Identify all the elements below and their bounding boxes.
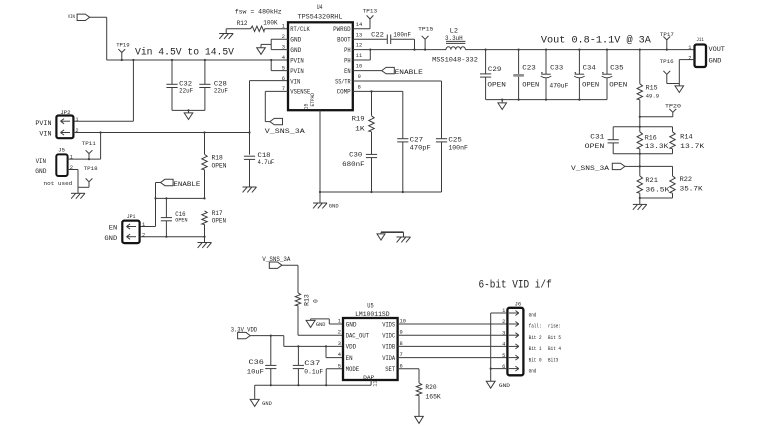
svg-text:OPEN: OPEN: [487, 82, 506, 89]
svg-text:6: 6: [282, 76, 285, 82]
resistor R17 OPEN: [202, 211, 207, 225]
svg-text:R22: R22: [680, 176, 693, 183]
capacitor C23 OPEN: [518, 49, 520, 51]
ground (triangle) output caps: [501, 100, 503, 103]
svg-text:1: 1: [282, 24, 285, 30]
wire divider mid node: [639, 154, 641, 176]
svg-text:100K: 100K: [263, 20, 277, 27]
ground (hatch) C18: [243, 186, 257, 188]
capacitor C25 100nF: [436, 138, 447, 140]
svg-text:TP18: TP18: [84, 165, 99, 172]
svg-text:10uF: 10uF: [247, 368, 264, 375]
resistor R12 100K: [226, 28, 250, 30]
wire U5 ground rail: [255, 384, 371, 386]
svg-text:6-bit VID i/f: 6-bit VID i/f: [479, 280, 552, 292]
wire ENABLE net horizontal: [156, 197, 205, 199]
svg-text:TP19: TP19: [116, 41, 130, 48]
net flag ENABLE (jumper side): [161, 179, 174, 185]
ground (triangle) U5 GND pin: [329, 323, 343, 325]
wire divider ground join: [640, 197, 673, 199]
svg-text:4: 4: [502, 342, 505, 348]
svg-text:2: 2: [338, 330, 341, 336]
svg-text:MODE: MODE: [346, 366, 360, 373]
ground (hatch) J5: [77, 187, 79, 193]
resistor R19 1K: [371, 91, 373, 115]
inductor L2 3.3uH: [446, 47, 465, 50]
svg-text:4: 4: [338, 352, 341, 358]
ground (triangle) J11: [678, 84, 680, 86]
svg-text:JP1: JP1: [127, 213, 136, 220]
svg-text:OPEN: OPEN: [212, 163, 227, 170]
connector JP2: [56, 116, 73, 139]
wire J6 ground pins 1,6: [491, 312, 508, 314]
svg-text:C37: C37: [304, 360, 320, 367]
wire U4 PH pin 11 jog: [353, 59, 371, 61]
svg-text:OPEN: OPEN: [212, 217, 227, 224]
svg-text:fsw = 480kHz: fsw = 480kHz: [235, 8, 282, 15]
capacitor C37 0.1uF: [297, 346, 299, 365]
svg-text:Bit 1: Bit 1: [529, 345, 542, 352]
svg-text:C34: C34: [583, 65, 596, 72]
ground (hatch) divider: [639, 198, 641, 204]
resistor R21 36.5K: [637, 176, 642, 193]
svg-text:GND: GND: [262, 401, 272, 407]
resistor R14 13.7K: [672, 127, 674, 132]
svg-text:VIN: VIN: [290, 78, 300, 85]
svg-text:EN: EN: [346, 355, 353, 362]
resistor R16 13.3K: [639, 127, 641, 132]
svg-text:PWRGD: PWRGD: [333, 26, 351, 33]
svg-text:VOUT: VOUT: [709, 46, 726, 53]
svg-text:Gnd: Gnd: [529, 367, 537, 374]
svg-text:PVIN: PVIN: [35, 120, 51, 127]
svg-text:U5: U5: [367, 303, 374, 310]
svg-text:VIDS: VIDS: [382, 321, 395, 328]
svg-text:U4: U4: [317, 4, 323, 11]
capacitor C33 470uF polarized: [545, 49, 547, 51]
svg-text:ENABLE: ENABLE: [395, 69, 423, 76]
resistor R13 0: [295, 293, 300, 306]
svg-text:C23: C23: [522, 65, 536, 72]
svg-text:PH: PH: [344, 57, 351, 64]
svg-text:13.3K: 13.3K: [645, 143, 669, 150]
ground net-tie wire: [381, 231, 404, 233]
connector JP1: [122, 221, 139, 244]
svg-text:100nF: 100nF: [448, 145, 468, 152]
capacitor C28 22uF: [204, 59, 206, 61]
svg-text:C30: C30: [349, 151, 362, 158]
svg-text:OPEN: OPEN: [582, 81, 599, 88]
wire L2 to output rail: [465, 49, 694, 51]
svg-text:Bit 0: Bit 0: [529, 356, 542, 363]
svg-text:J6: J6: [515, 301, 522, 308]
svg-text:not used: not used: [44, 180, 73, 187]
svg-text:3: 3: [502, 330, 505, 336]
capacitor C31 OPEN: [612, 127, 614, 140]
svg-text:2: 2: [502, 319, 505, 325]
svg-text:13: 13: [356, 32, 362, 38]
svg-text:GND: GND: [104, 235, 117, 242]
svg-text:VIDC: VIDC: [382, 333, 395, 340]
svg-text:C22: C22: [371, 31, 384, 38]
wire U4 VSENSE to flag: [265, 90, 288, 92]
svg-text:GND: GND: [35, 168, 46, 175]
svg-text:VIN: VIN: [36, 158, 47, 165]
svg-text:5: 5: [338, 363, 341, 369]
ground (hatch) net-tie: [403, 232, 405, 237]
svg-text:C18: C18: [258, 152, 271, 159]
svg-text:PVIN: PVIN: [290, 57, 304, 64]
wire PH rail: [353, 49, 446, 51]
svg-text:0: 0: [313, 299, 320, 303]
ground (triangle) net-tie: [380, 232, 382, 234]
wire U4 GND pins 2,3 join: [271, 38, 288, 40]
wire VIDS to J6: [398, 323, 508, 325]
svg-text:VIN: VIN: [39, 130, 51, 137]
ground (hatch) R12: [225, 29, 227, 34]
svg-text:VIDB: VIDB: [382, 344, 395, 351]
svg-text:13.7K: 13.7K: [680, 143, 704, 150]
svg-text:Vout 0.8-1.1V @ 3A: Vout 0.8-1.1V @ 3A: [541, 35, 652, 47]
svg-text:2: 2: [688, 55, 691, 61]
wire output caps ground rail: [486, 99, 607, 101]
svg-text:C35: C35: [610, 65, 624, 72]
svg-text:EN: EN: [109, 225, 118, 232]
resistor R22 35.7K: [670, 176, 675, 193]
svg-text:J5: J5: [58, 147, 66, 154]
wire input rail Vin: [107, 59, 288, 61]
capacitor C16 OPEN: [165, 198, 167, 217]
svg-text:TPS54320RHL: TPS54320RHL: [298, 13, 343, 20]
wire divider block bottom: [613, 153, 672, 155]
svg-text:Bit 4: Bit 4: [548, 345, 561, 352]
pin arrows J6: [509, 312, 519, 314]
wire J5 pin 1 to VIN rail: [68, 158, 101, 160]
svg-text:35.7K: 35.7K: [680, 185, 703, 192]
svg-text:COMP: COMP: [337, 89, 351, 96]
net flag V_SNS_3A (U4): [270, 118, 283, 124]
wire R22 branch top: [640, 165, 673, 167]
ground (hatch) GND U4: [319, 192, 321, 203]
svg-text:OPEN: OPEN: [585, 143, 605, 150]
svg-text:165K: 165K: [425, 394, 441, 401]
svg-text:R19: R19: [352, 116, 365, 123]
wire divider block top: [613, 126, 672, 128]
svg-text:PVIN: PVIN: [290, 68, 304, 75]
svg-text:R13: R13: [304, 294, 311, 306]
svg-text:9: 9: [358, 74, 361, 80]
ground (triangle) R20: [415, 416, 424, 423]
svg-text:TP15: TP15: [418, 26, 434, 33]
svg-text:TP11: TP11: [82, 140, 97, 147]
svg-text:R12: R12: [237, 20, 248, 27]
ground (triangle) input caps: [188, 110, 190, 113]
svg-text:GND: GND: [346, 321, 357, 328]
op-amp U5 LM10011SD VID IC: [343, 318, 398, 380]
svg-text:Bit3: Bit3: [548, 356, 559, 363]
ground (triangle) U4 GND pins: [260, 44, 262, 47]
wire VIDA to J6: [398, 357, 508, 359]
wire R13 to DAC_OUT: [298, 334, 343, 336]
wire JP1 pin 2 to ground: [140, 236, 205, 238]
svg-text:V_SNS_3A: V_SNS_3A: [265, 128, 305, 135]
svg-text:2: 2: [75, 128, 78, 134]
svg-text:1: 1: [688, 45, 691, 51]
wire VIDB to J6: [398, 345, 508, 347]
wire rail to JP2 pin 1: [132, 59, 134, 61]
capacitor C27 470pF: [402, 91, 404, 138]
svg-text:R17: R17: [212, 210, 223, 217]
svg-text:GND: GND: [709, 58, 722, 65]
svg-text:14: 14: [356, 22, 362, 28]
svg-text:TP16: TP16: [660, 58, 675, 65]
svg-text:GND: GND: [290, 47, 301, 54]
svg-text:TP13: TP13: [363, 7, 378, 14]
net flag V_SNS_3A (divider): [612, 163, 625, 169]
svg-text:R20: R20: [425, 384, 436, 391]
svg-text:1: 1: [142, 222, 145, 228]
ground (triangle) J6: [486, 381, 495, 388]
svg-text:Bit 5: Bit 5: [548, 334, 561, 341]
svg-text:SS/TR: SS/TR: [335, 78, 351, 85]
wire VIDC to J6: [398, 334, 508, 336]
svg-text:V_SNS_3A: V_SNS_3A: [571, 165, 609, 172]
svg-text:470pF: 470pF: [410, 145, 431, 152]
svg-text:12: 12: [356, 43, 362, 49]
wire C32 C28 bottom join: [172, 109, 205, 111]
capacitor C29 OPEN: [485, 49, 487, 51]
capacitor C35 OPEN polarized: [606, 49, 608, 51]
capacitor C32 22uF: [171, 59, 173, 61]
svg-text:R14: R14: [680, 134, 693, 141]
wire J11 pin 2 to ground: [679, 59, 694, 61]
svg-text:JP2: JP2: [60, 109, 71, 116]
svg-text:LM10011SD: LM10011SD: [355, 311, 390, 318]
svg-text:VIN: VIN: [68, 13, 76, 20]
svg-text:OPEN: OPEN: [175, 218, 187, 224]
svg-text:0.1uF: 0.1uF: [304, 369, 323, 376]
svg-text:VDD: VDD: [346, 344, 357, 351]
op-amp U4 TPS54320RHL converter IC: [288, 22, 353, 110]
wire J5 pin 2 to ground: [68, 169, 78, 171]
wire U4 COMP net: [353, 90, 403, 92]
svg-text:SET: SET: [385, 366, 395, 373]
wire U5 MODE to ground rail: [326, 368, 343, 370]
ground (triangle) GND U5 rail: [254, 385, 256, 399]
svg-text:DAP: DAP: [363, 375, 374, 381]
svg-text:VSENSE: VSENSE: [290, 89, 310, 96]
svg-text:1K: 1K: [355, 126, 365, 133]
svg-text:1: 1: [338, 319, 341, 325]
svg-text:22uF: 22uF: [214, 88, 228, 95]
wire 3.3V_VDD to U5 VDD: [250, 335, 284, 337]
svg-text:49.9: 49.9: [646, 93, 660, 100]
svg-text:R16: R16: [645, 134, 657, 141]
svg-text:GND: GND: [290, 37, 301, 44]
wire VIN flag to input rail: [90, 16, 107, 18]
svg-text:RT/CLK: RT/CLK: [290, 26, 310, 33]
svg-text:MSS1048-332: MSS1048-332: [432, 57, 478, 64]
svg-text:ETPAD: ETPAD: [310, 93, 316, 107]
svg-text:680nF: 680nF: [342, 161, 365, 168]
svg-text:fall:: fall:: [529, 323, 542, 330]
wire U5 EN tie to VDD: [326, 357, 343, 359]
svg-text:C27: C27: [410, 136, 424, 143]
svg-text:R21: R21: [645, 177, 658, 184]
svg-text:C25: C25: [448, 136, 462, 143]
svg-text:VIDA: VIDA: [382, 355, 395, 362]
svg-text:Bit 2: Bit 2: [529, 334, 542, 341]
resistor R15 49.9: [639, 49, 641, 51]
svg-text:L2: L2: [450, 27, 459, 34]
wire ENABLE to JP1 pin 1: [156, 182, 161, 184]
wire U4 SS/TR to C25: [353, 80, 442, 82]
svg-text:8: 8: [358, 85, 361, 91]
svg-text:TP20: TP20: [665, 103, 682, 110]
svg-text:Gnd: Gnd: [529, 312, 537, 319]
svg-text:J11: J11: [696, 37, 704, 43]
svg-text:PH: PH: [344, 47, 351, 54]
svg-text:R15: R15: [646, 85, 658, 92]
resistor R18 OPEN: [203, 131, 205, 133]
svg-text:GND: GND: [316, 322, 326, 328]
svg-text:1: 1: [75, 117, 78, 123]
svg-text:5: 5: [502, 353, 505, 359]
svg-text:C36: C36: [249, 359, 265, 366]
svg-text:10: 10: [356, 64, 362, 70]
svg-text:Vin 4.5V to 14.5V: Vin 4.5V to 14.5V: [135, 47, 235, 59]
svg-text:4.7uF: 4.7uF: [258, 159, 275, 166]
svg-text:TP17: TP17: [660, 31, 675, 38]
svg-text:3.3uH: 3.3uH: [445, 35, 463, 42]
capacitor C18 4.7uF: [244, 155, 255, 157]
svg-text:C29: C29: [488, 66, 502, 73]
svg-text:3: 3: [338, 341, 341, 347]
net flag ENABLE (U4 EN pin): [353, 70, 382, 72]
capacitor C22 100nF (BOOT): [353, 38, 388, 40]
wire U4 PowerPAD pin 15 to ground: [319, 110, 321, 192]
capacitor C34 OPEN polarized: [578, 49, 580, 51]
ground (hatch) JP1: [204, 237, 206, 243]
svg-text:4: 4: [282, 55, 285, 61]
svg-text:100nF: 100nF: [393, 31, 411, 38]
resistor R20 165K: [398, 368, 419, 370]
connector J6 VID interface: [507, 308, 523, 376]
svg-text:OPEN: OPEN: [522, 81, 539, 88]
svg-text:R18: R18: [212, 155, 224, 162]
wire compensation ground rail: [320, 191, 442, 193]
svg-text:BOOT: BOOT: [337, 37, 351, 44]
svg-text:22uF: 22uF: [179, 88, 193, 95]
capacitor C36 10uF: [270, 336, 272, 366]
svg-text:11: 11: [356, 53, 362, 59]
wire U4 VIN pin to rail and C18: [250, 80, 289, 82]
svg-text:DAC_OUT: DAC_OUT: [346, 333, 370, 340]
svg-text:11: 11: [372, 381, 378, 387]
svg-text:GND: GND: [499, 383, 510, 389]
connector J5 (not used): [56, 154, 67, 176]
svg-text:C31: C31: [590, 134, 604, 141]
svg-text:15: 15: [304, 103, 310, 109]
svg-text:GND: GND: [329, 204, 339, 210]
svg-text:rise:: rise:: [548, 323, 561, 330]
svg-text:EN: EN: [344, 68, 351, 75]
wire U4 PVIN pin 5 jog: [271, 70, 288, 72]
capacitor C30 680nF: [366, 153, 377, 155]
wire V_SNS_3A to R13: [282, 264, 298, 266]
svg-text:2: 2: [142, 232, 145, 238]
wire VIN rail (JP2 pin 2): [73, 132, 249, 134]
svg-text:36.5K: 36.5K: [645, 186, 669, 193]
svg-text:470uF: 470uF: [549, 83, 568, 90]
svg-text:C33: C33: [550, 65, 563, 72]
svg-text:OPEN: OPEN: [609, 81, 627, 88]
svg-text:ENABLE: ENABLE: [173, 181, 200, 188]
connector J11 VOUT: [695, 45, 707, 68]
